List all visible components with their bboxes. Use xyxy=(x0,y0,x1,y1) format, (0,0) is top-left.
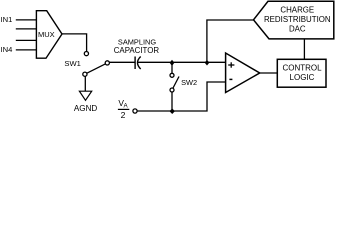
node junction rail to DAC xyxy=(205,60,210,66)
switch SW2 bottom contact xyxy=(170,88,174,92)
wire input line 2 xyxy=(16,28,37,30)
svg-text:AGND: AGND xyxy=(74,104,98,113)
wire DAC to control logic xyxy=(303,39,305,59)
switch SW1 pivot contact xyxy=(105,61,109,65)
wire junction to SW2 top xyxy=(171,62,173,73)
control logic box xyxy=(277,59,326,87)
capacitor curved plate xyxy=(138,57,141,70)
wire input line 1 xyxy=(16,19,37,21)
svg-text:SW2: SW2 xyxy=(181,78,197,87)
switch SW1 ground contact xyxy=(83,72,87,76)
switch SW1 top contact xyxy=(84,52,88,56)
svg-text:CAPACITOR: CAPACITOR xyxy=(114,46,160,55)
svg-text:2: 2 xyxy=(121,110,126,120)
node junction rail to SW2 xyxy=(170,60,175,66)
wire SW1 to ground xyxy=(84,76,86,91)
svg-text:CONTROL: CONTROL xyxy=(282,63,322,72)
wire SW1 pivot to sampling capacitor xyxy=(109,61,135,63)
svg-text:REDISTRIBUTION: REDISTRIBUTION xyxy=(264,15,331,24)
wire junction to DAC xyxy=(207,20,254,62)
svg-text:MUX: MUX xyxy=(38,30,55,39)
svg-text:SAMPLING: SAMPLING xyxy=(118,37,156,46)
comparator + input sign xyxy=(228,64,234,66)
wire input line 4 xyxy=(16,49,37,51)
svg-text:LOGIC: LOGIC xyxy=(290,73,315,82)
wire capacitor to comparator + input xyxy=(138,61,225,63)
svg-text:IN4: IN4 xyxy=(1,45,13,54)
wire comparator output to control logic xyxy=(260,72,278,74)
wire MUX output to SW1 xyxy=(62,34,87,52)
terminal VA/2 xyxy=(133,109,137,113)
svg-text:SW1: SW1 xyxy=(64,59,80,68)
switch SW1 arm xyxy=(85,63,107,74)
svg-text:IN1: IN1 xyxy=(1,15,13,24)
charge redistribution DAC box xyxy=(254,1,334,39)
ground symbol AGND xyxy=(79,91,91,100)
wire SW2 bottom to lower rail xyxy=(171,92,173,111)
svg-text:CHARGE: CHARGE xyxy=(280,5,314,14)
comparator - input sign xyxy=(229,78,232,80)
multiplexer MUX xyxy=(36,11,62,59)
wire lower rail to comparator - input xyxy=(137,82,225,111)
wire input line 3 xyxy=(16,39,37,41)
op-amp comparator xyxy=(226,53,260,93)
capacitor straight plate xyxy=(134,57,136,70)
switch SW2 arm xyxy=(172,77,179,91)
switch SW2 top contact xyxy=(170,73,174,77)
svg-text:DAC: DAC xyxy=(289,24,306,33)
node junction lower rail xyxy=(170,108,175,114)
